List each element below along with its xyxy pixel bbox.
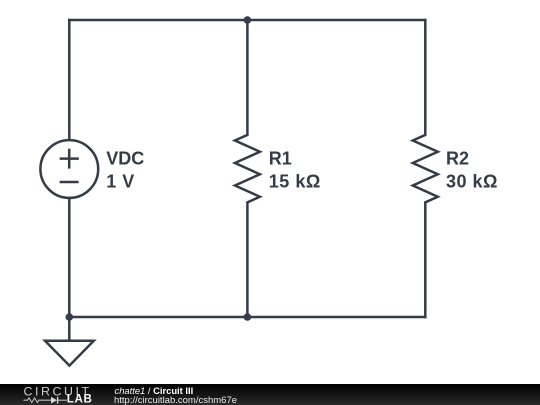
label VDC value	[106, 149, 144, 192]
wire: left vertical from top corner to V1 top	[68, 20, 71, 139]
CircuitLab logo diode triangle	[51, 397, 58, 404]
wire: V1 bottom to ground junction	[68, 199, 71, 317]
footer title line: chatte1 / Circuit III	[115, 385, 194, 396]
svg-text:R2: R2	[446, 149, 469, 169]
svg-text:R1: R1	[269, 149, 292, 169]
CircuitLab logo resistor-diode glyph	[24, 398, 67, 403]
wire: bottom horizontal net	[69, 316, 425, 319]
footer bar	[0, 384, 540, 405]
label R1 value	[269, 149, 321, 192]
svg-text:30 kΩ: 30 kΩ	[446, 172, 498, 192]
svg-text:1 V: 1 V	[106, 172, 135, 192]
svg-text:15 kΩ: 15 kΩ	[269, 172, 321, 192]
voltage source V1 (VDC 1 V)	[40, 140, 98, 198]
wire: top horizontal net	[69, 19, 425, 22]
resistor R2	[413, 20, 438, 317]
svg-text:VDC: VDC	[106, 149, 144, 169]
svg-text:LAB: LAB	[67, 392, 93, 405]
junction node top (R1 / top net)	[244, 16, 252, 24]
resistor R1	[235, 20, 260, 317]
CircuitLab logo wordmark CIRCUIT	[24, 385, 92, 399]
ground symbol	[45, 317, 94, 366]
footer url line	[114, 395, 237, 405]
junction node bottom (R1 / bottom net)	[244, 313, 252, 321]
label R2 value	[446, 149, 498, 192]
svg-text:http://circuitlab.com/cshm67e: http://circuitlab.com/cshm67e	[114, 395, 237, 405]
junction node bottom left (ground tap)	[66, 313, 74, 321]
CircuitLab logo wordmark LAB	[67, 392, 93, 405]
